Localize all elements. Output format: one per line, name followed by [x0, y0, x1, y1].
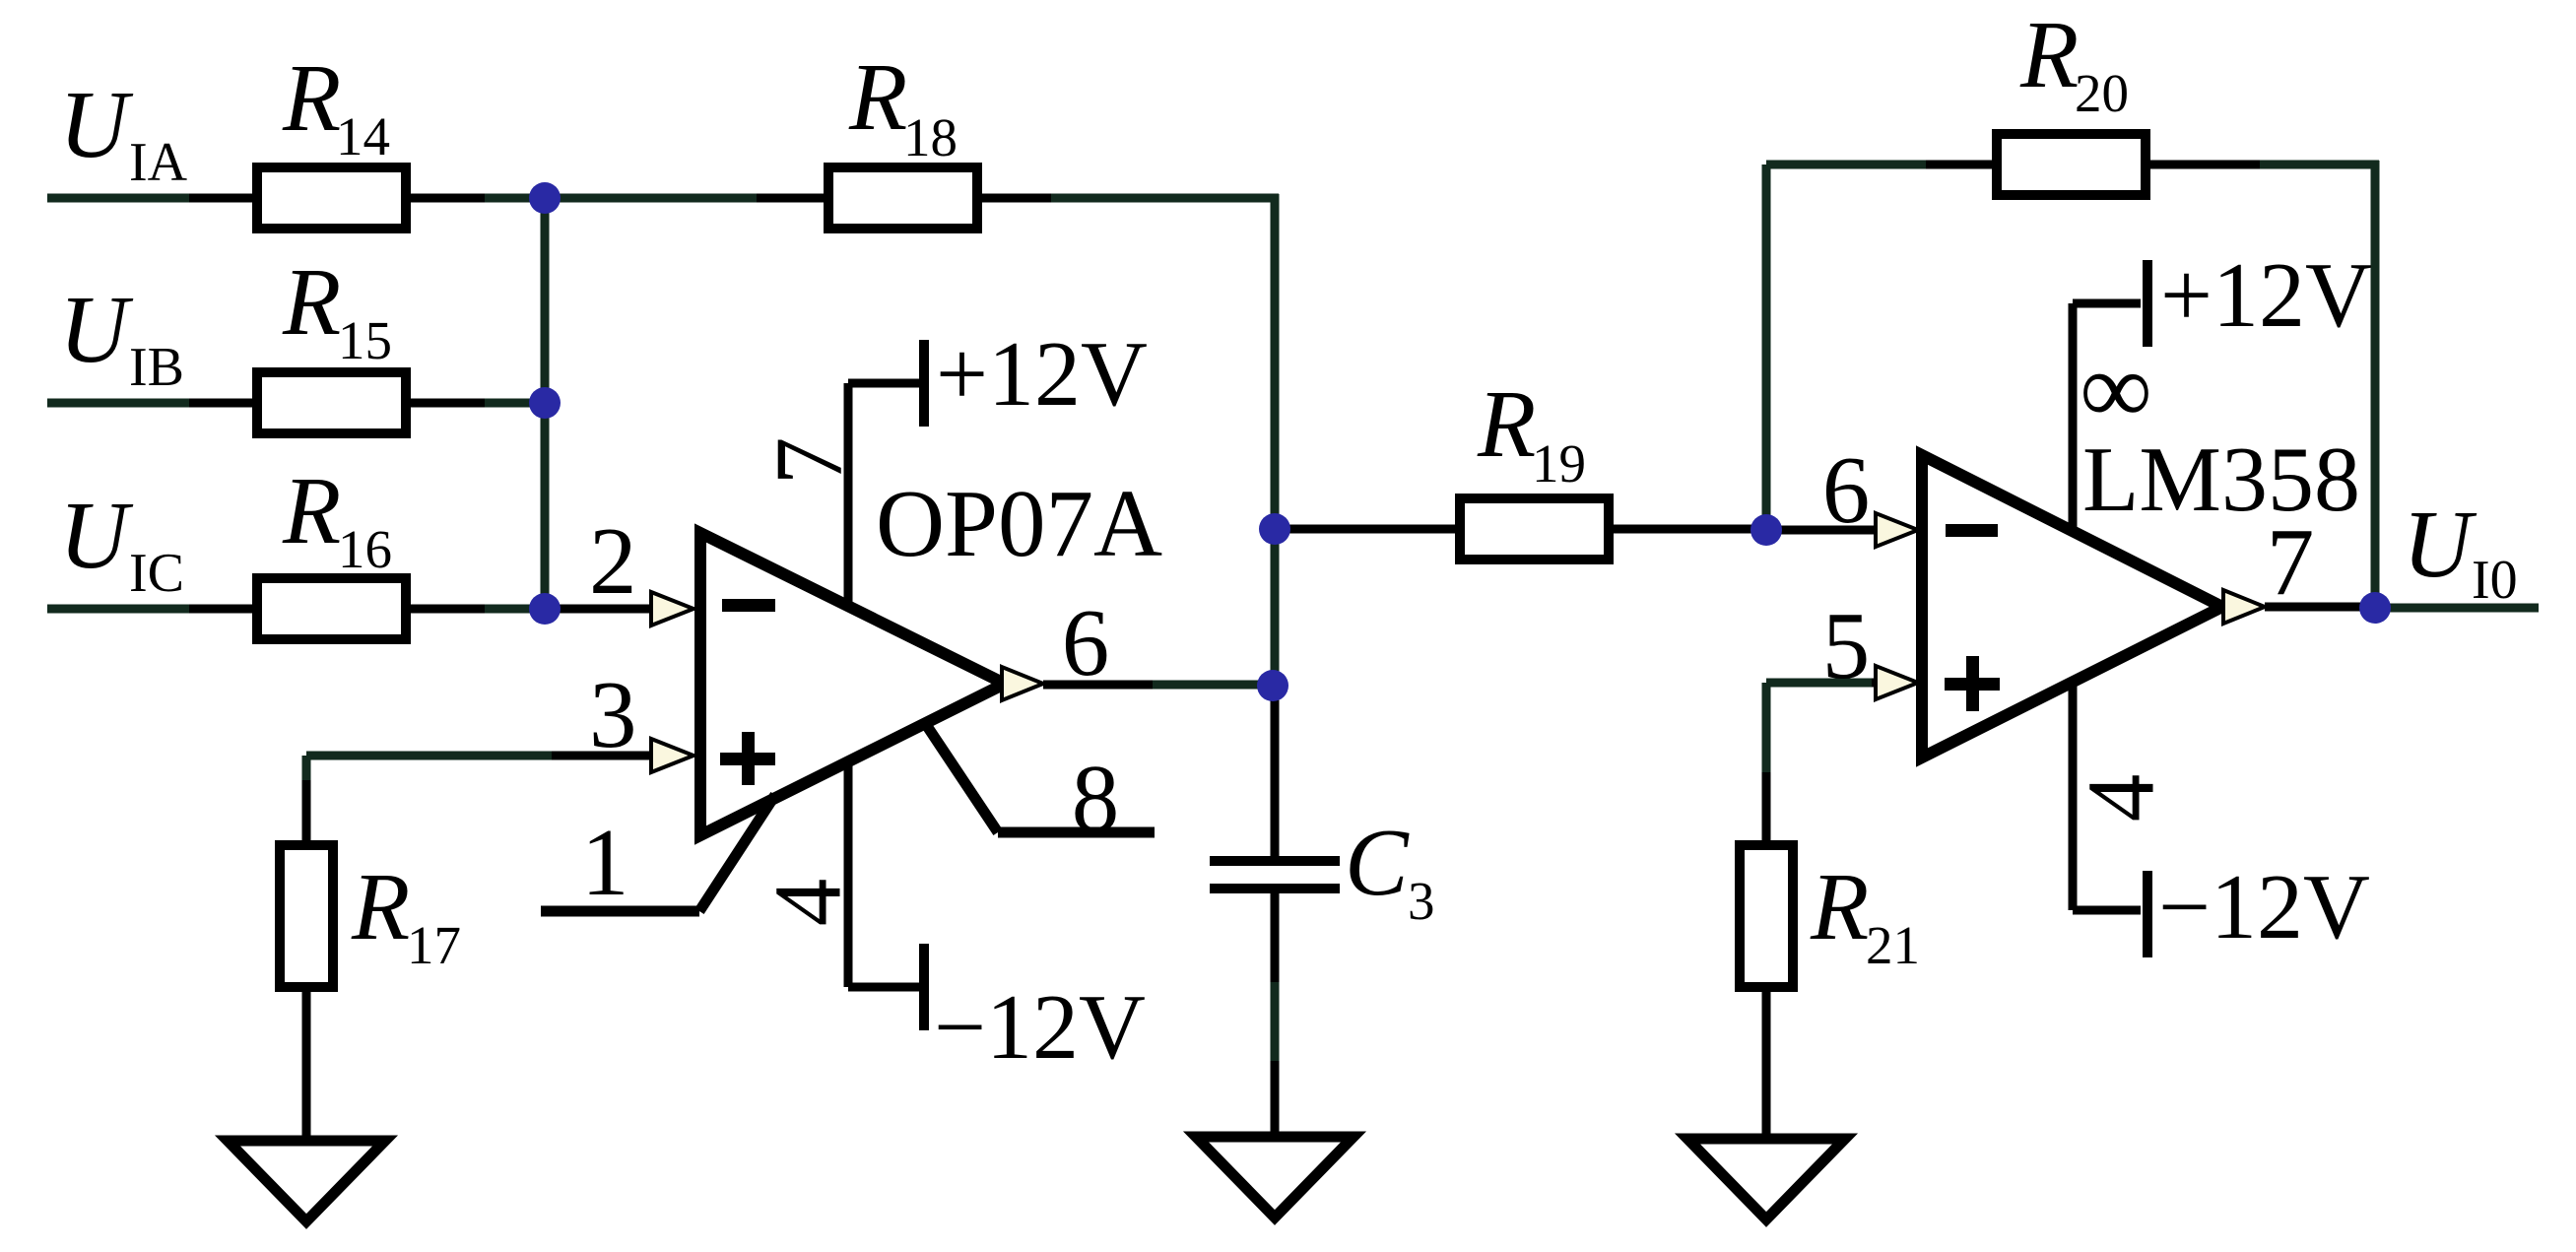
- node C junction dot: [529, 593, 561, 625]
- svg-text:−12V: −12V: [2158, 856, 2370, 958]
- battery bar -12V (LM358): [2143, 871, 2152, 957]
- pin 3 arrow: [651, 739, 694, 772]
- label UIB: [59, 277, 184, 398]
- wire R17 top lead: [302, 756, 311, 843]
- wire pin4 power: [848, 758, 920, 987]
- svg-text:R: R: [282, 45, 341, 151]
- wire pin8: [923, 720, 1155, 832]
- svg-text:3: 3: [1408, 871, 1435, 931]
- svg-text:3: 3: [589, 662, 637, 767]
- wire pin7 power: [848, 383, 920, 607]
- svg-text:R: R: [351, 854, 410, 959]
- label R15: [282, 249, 392, 370]
- label R19: [1477, 371, 1586, 494]
- wire LM358 output: [2265, 607, 2539, 608]
- wire R20 right: [2150, 161, 2379, 608]
- wire C3 top lead: [1271, 686, 1280, 858]
- label R20: [2019, 2, 2129, 123]
- wire summing bus vertical: [541, 198, 550, 609]
- pin 2 arrow: [651, 592, 694, 626]
- battery bar +12V (LM358): [2143, 260, 2152, 347]
- svg-text:1: 1: [581, 810, 629, 915]
- wire R14 to node: [411, 194, 545, 203]
- svg-text:R: R: [282, 249, 341, 355]
- svg-text:R: R: [282, 458, 341, 563]
- svg-text:6: 6: [1062, 590, 1110, 695]
- svg-text:20: 20: [2075, 63, 2129, 123]
- wire R15 to node: [411, 399, 545, 408]
- resistor R15: [257, 372, 406, 433]
- node R19/pin6 junction dot: [1750, 514, 1782, 546]
- wire R21 top lead: [1762, 683, 1771, 845]
- svg-text:15: 15: [338, 310, 392, 370]
- capacitor C3: [1210, 861, 1340, 889]
- node B junction dot: [529, 387, 561, 419]
- battery bar -12V (OP07A): [919, 944, 929, 1030]
- svg-text:6: 6: [1822, 437, 1871, 543]
- resistor R18: [828, 167, 977, 229]
- svg-text:OP07A: OP07A: [876, 471, 1162, 576]
- resistor R19: [1460, 498, 1609, 560]
- label R18: [848, 44, 958, 167]
- label UI0: [2403, 492, 2518, 611]
- wire U_IB input: [47, 399, 254, 408]
- resistor R21: [1740, 845, 1793, 987]
- label R17: [351, 854, 461, 975]
- op-amp U2 LM358 triangle: [1922, 455, 2222, 758]
- svg-text:C: C: [1345, 810, 1410, 915]
- op-amp U2 minus sign: [1946, 524, 1998, 537]
- wire R18 to corner: [982, 194, 1279, 203]
- label R21: [1810, 854, 1920, 975]
- ground (R21): [1687, 1139, 1845, 1219]
- wire pin8 power (LM358): [2073, 303, 2141, 531]
- wire C3 to ground: [1271, 889, 1280, 1137]
- svg-text:U: U: [2403, 492, 2477, 597]
- wire pin6 lead (LM358): [1766, 526, 1878, 535]
- label UIC: [59, 483, 184, 604]
- svg-text:5: 5: [1822, 593, 1871, 698]
- pin 5 arrow (LM358): [1876, 666, 1918, 699]
- svg-text:21: 21: [1866, 915, 1920, 975]
- pin 6 arrow (LM358): [1876, 513, 1918, 547]
- ground (C3): [1196, 1137, 1354, 1218]
- wire pin2 lead: [545, 605, 653, 614]
- wire R17 to ground: [302, 992, 311, 1141]
- op-amp U1 OP07A triangle: [700, 533, 1005, 835]
- label UIA: [59, 72, 188, 193]
- battery bar +12V (OP07A): [919, 340, 929, 427]
- node output junction dot: [1257, 670, 1288, 701]
- wire pin5 (LM358): [1766, 679, 1878, 688]
- op-amp U1 minus sign: [722, 599, 775, 612]
- svg-text:∞: ∞: [2080, 333, 2151, 445]
- svg-text:4: 4: [756, 879, 861, 927]
- wire op1 output: [1043, 681, 1275, 690]
- svg-text:R: R: [1477, 371, 1536, 477]
- resistor R14: [257, 167, 406, 229]
- svg-text:7: 7: [2267, 509, 2315, 615]
- svg-text:+12V: +12V: [936, 323, 1148, 426]
- op-amp U2 plus sign: [1945, 656, 2000, 711]
- svg-text:17: 17: [407, 915, 461, 975]
- svg-text:U: U: [59, 277, 134, 382]
- svg-text:7: 7: [757, 437, 862, 486]
- wire R20 left vertical: [1766, 165, 1995, 529]
- wire R19 to node: [1613, 525, 1766, 534]
- resistor R20: [1997, 134, 2146, 195]
- pin 6 output arrow (OP07A): [1002, 667, 1043, 700]
- wire U_IA input: [47, 194, 254, 203]
- node A junction dot: [529, 182, 561, 214]
- op-amp U1 plus sign: [720, 732, 775, 785]
- pin 7 output arrow (LM358): [2223, 590, 2265, 624]
- svg-text:IC: IC: [129, 543, 184, 604]
- svg-text:R: R: [2019, 2, 2079, 107]
- svg-text:U: U: [59, 72, 134, 177]
- wire node to R18: [545, 194, 826, 203]
- wire R21 to ground: [1762, 992, 1771, 1139]
- wire pin3: [306, 752, 653, 760]
- wire R16 to node: [411, 605, 545, 614]
- svg-text:IB: IB: [129, 337, 184, 398]
- svg-text:4: 4: [2069, 774, 2174, 823]
- node output dot: [2359, 592, 2391, 624]
- svg-text:18: 18: [903, 107, 958, 167]
- svg-text:+12V: +12V: [2160, 244, 2372, 347]
- wire pin1: [541, 795, 775, 911]
- ground (R17): [228, 1141, 385, 1221]
- node feedback junction dot: [1259, 513, 1290, 545]
- svg-text:R: R: [848, 44, 907, 150]
- wire feedback vertical: [1271, 194, 1280, 690]
- wire pin4 power (LM358): [2073, 682, 2141, 910]
- wire U_IC input: [47, 605, 254, 614]
- resistor R17: [280, 845, 333, 987]
- label R14: [282, 45, 390, 166]
- svg-text:−12V: −12V: [934, 976, 1146, 1079]
- resistor R16: [257, 578, 406, 639]
- svg-text:U: U: [59, 483, 134, 588]
- label R16: [282, 458, 392, 579]
- svg-text:16: 16: [338, 519, 392, 579]
- svg-text:I0: I0: [2472, 550, 2518, 611]
- svg-text:IA: IA: [129, 132, 188, 193]
- svg-text:19: 19: [1532, 433, 1586, 494]
- svg-text:2: 2: [589, 508, 637, 614]
- svg-text:R: R: [1810, 854, 1869, 959]
- wire to R19: [1275, 525, 1457, 534]
- label C3: [1345, 810, 1435, 931]
- svg-text:14: 14: [336, 106, 390, 166]
- svg-text:8: 8: [1072, 746, 1120, 851]
